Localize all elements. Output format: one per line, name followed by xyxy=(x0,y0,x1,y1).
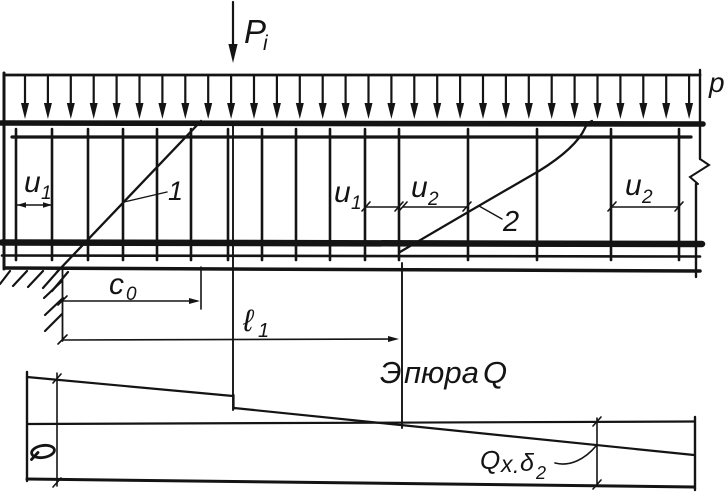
leader for Qx label xyxy=(555,446,596,464)
Q value dimension line xyxy=(56,373,58,486)
Q diagram axis line xyxy=(27,422,694,425)
stirrup x=537 xyxy=(536,129,539,260)
stirrup x=611 xyxy=(610,129,613,260)
crack 2 xyxy=(400,121,592,252)
Q diagram step under Pi xyxy=(232,395,234,409)
svg-text:2: 2 xyxy=(427,189,439,210)
load arrow 3 xyxy=(70,76,72,107)
stirrup x=679 xyxy=(678,129,681,260)
svg-text:u: u xyxy=(334,176,351,209)
svg-text:p: p xyxy=(708,67,725,98)
extension line at support face xyxy=(62,270,64,341)
svg-text:u: u xyxy=(625,169,642,202)
svg-text:Э: Э xyxy=(380,355,402,390)
leader for label 2 xyxy=(479,206,502,219)
svg-text:Q: Q xyxy=(483,355,507,390)
dimension u2 mid xyxy=(403,206,467,208)
load arrow 9 xyxy=(207,76,209,107)
svg-text:c: c xyxy=(109,268,124,301)
section line under Pi xyxy=(232,126,234,410)
beam right edge lower xyxy=(695,184,697,277)
svg-text:0: 0 xyxy=(126,284,137,305)
stirrup x=191 xyxy=(190,129,193,260)
beam bottom edge xyxy=(5,268,700,271)
load band top edge xyxy=(4,74,700,77)
svg-text:1: 1 xyxy=(41,183,52,204)
Q diagram bottom edge xyxy=(27,479,694,487)
load arrow 27 xyxy=(619,76,621,107)
stirrup x=52 xyxy=(51,129,54,260)
svg-text:х: х xyxy=(500,451,514,477)
svg-text:i: i xyxy=(263,32,269,55)
load arrow 8 xyxy=(184,76,186,107)
svg-text:.: . xyxy=(513,452,519,478)
force arrow Pi xyxy=(232,2,234,46)
load arrow 12 xyxy=(276,76,278,107)
load arrow 11 xyxy=(253,76,255,107)
load arrow 30 xyxy=(688,76,690,107)
stirrup x=399 xyxy=(398,129,401,260)
load arrow 4 xyxy=(93,76,95,107)
svg-text:2: 2 xyxy=(641,187,653,208)
load arrow 29 xyxy=(665,76,667,107)
Q diagram left edge xyxy=(26,372,28,481)
stirrup x=296 xyxy=(295,129,298,260)
load arrow 1 xyxy=(24,76,26,107)
load arrow 18 xyxy=(413,76,415,107)
bottom rebar (thick) xyxy=(2,243,702,245)
svg-text:Q: Q xyxy=(480,445,500,475)
stirrup x=262 xyxy=(261,129,264,260)
load band bottom edge (beam top face) xyxy=(1,123,703,124)
Q diagram top edge (left of Pi) xyxy=(27,377,233,396)
svg-text:u: u xyxy=(411,171,428,204)
stirrup x=365 xyxy=(364,129,367,260)
stirrup x=157 xyxy=(156,129,159,260)
svg-text:1: 1 xyxy=(258,320,269,342)
load arrow 20 xyxy=(459,76,461,107)
dimension u1 mid xyxy=(366,206,399,208)
bottom rebar second line xyxy=(2,256,700,257)
svg-text:ℓ: ℓ xyxy=(242,303,255,338)
load arrow 21 xyxy=(482,76,484,107)
stirrup x=228 xyxy=(227,129,230,260)
beam right edge upper xyxy=(699,70,701,159)
section line at l1 end xyxy=(401,263,403,428)
load arrow 25 xyxy=(573,76,575,107)
stirrup x=330 xyxy=(329,129,332,260)
svg-text:пюра: пюра xyxy=(404,355,479,390)
load arrow 22 xyxy=(505,76,507,107)
load arrow 15 xyxy=(345,76,347,107)
svg-text:1: 1 xyxy=(351,193,362,214)
load arrow 5 xyxy=(115,76,117,107)
load arrow 16 xyxy=(367,76,369,107)
stirrup x=88 xyxy=(87,129,90,260)
load arrow 13 xyxy=(299,76,301,107)
dimension u2 right xyxy=(612,206,679,208)
label Q rotated xyxy=(31,444,56,459)
svg-text:1: 1 xyxy=(168,176,183,206)
svg-text:2: 2 xyxy=(502,206,519,238)
beam left edge xyxy=(3,73,6,269)
load arrow 19 xyxy=(436,76,438,107)
extension line c0 right xyxy=(200,267,202,309)
load arrow 14 xyxy=(322,76,324,107)
break symbol xyxy=(690,159,709,184)
svg-text:2: 2 xyxy=(535,463,546,483)
top rebar xyxy=(12,135,691,138)
load arrow 2 xyxy=(47,76,49,107)
stirrup x=468 xyxy=(467,129,470,260)
svg-text:u: u xyxy=(24,166,41,199)
crack 1 xyxy=(57,121,201,272)
dimension line Qx xyxy=(596,418,598,485)
dimension c0 xyxy=(63,300,197,302)
load arrow 24 xyxy=(551,76,553,107)
stirrup x=16 xyxy=(15,129,18,260)
stirrup x=123 xyxy=(122,129,125,260)
load arrow 7 xyxy=(161,76,163,107)
load arrow 28 xyxy=(642,76,644,107)
support hatching under beam xyxy=(0,271,68,291)
load arrow 17 xyxy=(390,76,392,107)
load arrow 26 xyxy=(596,76,598,107)
dimension u1 left xyxy=(17,204,52,206)
svg-text:δ: δ xyxy=(520,449,535,477)
load arrow 10 xyxy=(230,76,232,107)
load arrow 6 xyxy=(138,76,140,107)
Q diagram right edge xyxy=(694,417,696,490)
load arrow 23 xyxy=(528,76,530,107)
leader for label 1 xyxy=(124,192,167,202)
Q diagram sloped edge (right of Pi) xyxy=(234,408,694,455)
dimension l1 xyxy=(63,339,395,340)
support hatching along face xyxy=(44,281,63,331)
